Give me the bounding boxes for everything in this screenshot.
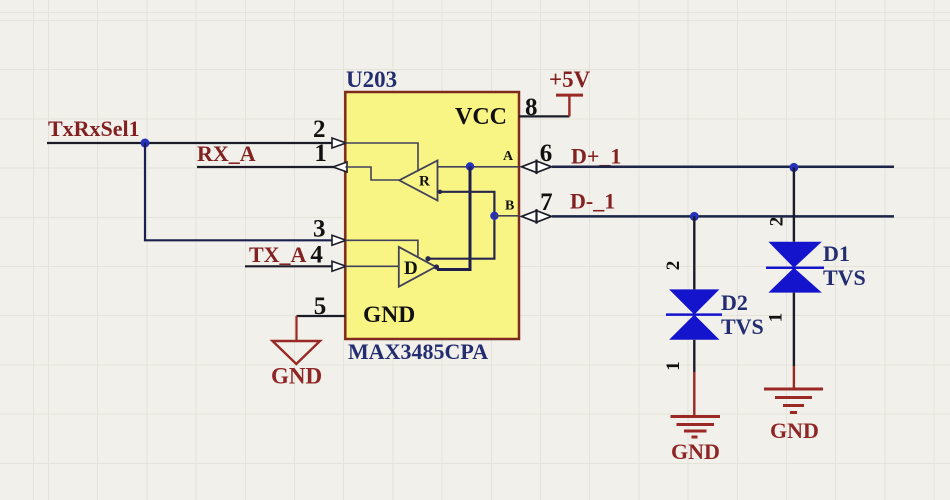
svg-text:VCC: VCC — [455, 104, 507, 130]
svg-text:1: 1 — [663, 361, 684, 371]
pin number 1 — [314, 140, 327, 167]
pin number 2 of D2 — [663, 261, 684, 271]
internal pin3 enable line — [345, 240, 418, 257]
svg-text:2: 2 — [767, 217, 788, 227]
svg-text:TxRxSel1: TxRxSel1 — [48, 116, 140, 141]
wire vertical junction to pin3 — [145, 143, 332, 240]
label TVS of D1 — [823, 265, 866, 290]
ground GND triangle — [273, 341, 321, 364]
svg-text:U203: U203 — [346, 67, 397, 92]
pin number 7 — [540, 189, 553, 216]
node B junction — [490, 212, 498, 220]
svg-text:GND: GND — [671, 439, 720, 464]
pin number 4 — [310, 242, 323, 269]
svg-text:A: A — [503, 149, 514, 164]
label D2 — [721, 290, 748, 315]
ground stub of D1 — [793, 366, 795, 388]
pin 8 wire — [519, 115, 569, 117]
svg-text:MAX3485CPA: MAX3485CPA — [348, 339, 488, 364]
svg-text:B: B — [505, 199, 514, 214]
svg-text:1: 1 — [766, 313, 787, 323]
internal thick driver output line — [437, 167, 470, 270]
pin 3 arrow — [332, 235, 346, 245]
svg-text:TVS: TVS — [823, 265, 866, 290]
svg-text:2: 2 — [663, 261, 684, 271]
wire D+ — [552, 166, 894, 169]
svg-text:5: 5 — [314, 293, 327, 320]
pin 7 diamond indicator — [522, 209, 552, 224]
wire TX_A — [245, 265, 332, 267]
power +5V stub — [568, 95, 570, 116]
wire TxRxSel1 horizontal — [47, 142, 332, 144]
power label +5V — [549, 67, 591, 92]
net label RX_A — [197, 141, 256, 166]
internal pin1 output line — [345, 167, 399, 180]
pin 6 diamond indicator — [522, 160, 552, 175]
pin number 1 of D1 — [766, 313, 787, 323]
node junction D+ D1 — [789, 163, 798, 172]
svg-text:RX_A: RX_A — [197, 141, 256, 166]
svg-text:TX_A: TX_A — [249, 242, 307, 267]
svg-text:1: 1 — [314, 140, 327, 167]
wire D2 bottom — [693, 340, 695, 372]
IC U203 MAX3485CPA body — [345, 92, 519, 339]
pin 5 wire — [297, 315, 346, 317]
svg-text:TVS: TVS — [721, 314, 764, 339]
ground earth symbol of D1 — [764, 389, 823, 413]
diode D1 TVS bottom triangle — [768, 268, 821, 293]
label GND inside box — [363, 302, 415, 328]
node driver output dot — [434, 264, 439, 269]
pin number 3 — [313, 216, 326, 243]
ground GND power port stub — [295, 316, 297, 341]
pin A label — [503, 149, 514, 164]
pin 4 arrow — [332, 261, 346, 271]
pin number 2 — [313, 116, 326, 143]
net label D+_1 — [571, 144, 621, 169]
internal A line — [438, 166, 520, 168]
diode D1 TVS top triangle — [768, 242, 821, 268]
node junction D- D2 — [690, 212, 699, 221]
internal B input line — [429, 192, 495, 259]
pin number 5 — [314, 293, 327, 320]
svg-text:6: 6 — [540, 140, 553, 167]
wire D1 bottom — [793, 293, 795, 366]
ground stub of D2 — [693, 372, 695, 416]
label MAX3485CPA — [348, 339, 488, 364]
pin number 8 — [525, 94, 538, 121]
node junction TxRxSel1 — [141, 139, 150, 148]
svg-text:GND: GND — [363, 302, 415, 328]
svg-text:2: 2 — [313, 116, 326, 143]
svg-text:GND: GND — [770, 418, 819, 443]
pin B label — [505, 199, 514, 214]
node A junction — [466, 162, 474, 170]
svg-text:D: D — [404, 258, 418, 279]
label U203 — [346, 67, 397, 92]
wire D1 top — [793, 167, 795, 241]
ground earth symbol of D2 — [671, 417, 721, 438]
ground label GND — [271, 364, 322, 389]
net label TX_A — [249, 242, 307, 267]
internal pin4 input line — [345, 265, 399, 267]
wire D2 top — [693, 216, 695, 289]
svg-text:D+_1: D+_1 — [571, 144, 621, 169]
label D1 — [823, 241, 850, 266]
diode D1 TVS bar — [766, 267, 824, 270]
internal B line to pin — [494, 215, 519, 217]
ground label GND of D1 — [770, 418, 819, 443]
pin number 2 of D1 — [767, 217, 788, 227]
node receiver inverting input tick — [438, 190, 442, 194]
diode D2 TVS bottom triangle — [669, 315, 719, 340]
svg-text:4: 4 — [310, 242, 323, 269]
svg-text:7: 7 — [540, 189, 553, 216]
svg-text:D1: D1 — [823, 241, 850, 266]
pin 1 arrow — [333, 162, 347, 172]
svg-text:8: 8 — [525, 94, 538, 121]
label TVS of D2 — [721, 314, 764, 339]
receiver triangle R — [399, 161, 437, 201]
svg-text:+5V: +5V — [549, 67, 591, 92]
node driver inverted output bubble — [425, 256, 430, 261]
pin 2 arrow — [332, 138, 346, 148]
wire D- — [552, 215, 894, 218]
wire RX_A — [197, 166, 334, 168]
net label TxRxSel1 — [48, 116, 140, 141]
svg-text:D2: D2 — [721, 290, 748, 315]
diode D2 TVS top triangle — [669, 289, 719, 314]
svg-text:3: 3 — [313, 216, 326, 243]
internal pin2 enable line — [345, 143, 418, 172]
pin number 1 of D2 — [663, 361, 684, 371]
svg-text:D-_1: D-_1 — [570, 189, 615, 214]
driver triangle D — [399, 247, 436, 287]
pin number 6 — [540, 140, 553, 167]
ground label GND of D2 — [671, 439, 720, 464]
svg-text:GND: GND — [271, 364, 322, 389]
diode D2 TVS bar — [666, 313, 722, 316]
power +5V bar — [556, 94, 583, 97]
svg-text:R: R — [419, 174, 430, 190]
label VCC — [455, 104, 507, 130]
net label D-_1 — [570, 189, 615, 214]
